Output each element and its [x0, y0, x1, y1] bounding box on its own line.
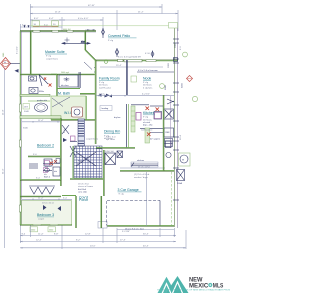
- vertical wall x56.5 (master bath/WIC): [56, 74, 59, 96]
- svg-text:Nook: Nook: [143, 77, 151, 81]
- svg-text:(2) 3'-0 x 6'-8 dr: (2) 3'-0 x 6'-8 dr: [134, 173, 150, 176]
- patio dim diamond 1: [102, 28, 105, 38]
- closet bottom wall y196: [20, 195, 61, 198]
- bath2 fixtures cluster: [43, 159, 60, 179]
- left dim labels mid: [23, 128, 29, 130]
- NM MLS logo white chevron left: [162, 284, 171, 294]
- svg-text:9'-1 1/2": 9'-1 1/2": [17, 46, 19, 54]
- svg-text:wall R-value: wall R-value: [99, 87, 112, 89]
- svg-text:8'-0 x 6'-8 sgd 5040 SH: 8'-0 x 6'-8 sgd 5040 SH: [118, 57, 141, 59]
- closet rod zigzag: [29, 186, 55, 194]
- left dimension line: [3, 31, 21, 248]
- dim line 11-4 bedroom2: [22, 120, 60, 123]
- svg-text:5040: 5040: [49, 230, 53, 232]
- svg-text:tile shwr: tile shwr: [61, 84, 69, 87]
- top dimension tier 1: [30, 5, 162, 8]
- wic tub fixture: [72, 107, 83, 117]
- ref box: [164, 96, 174, 148]
- svg-text:Dining Rm: Dining Rm: [104, 130, 120, 134]
- svg-text:stucco o/ frame: stucco o/ frame: [78, 185, 94, 188]
- svg-text:8'-8": 8'-8": [54, 233, 59, 235]
- porch step texts: [78, 184, 94, 194]
- master suite south wall y74: [20, 73, 95, 76]
- garage mid dim vertical: [146, 172, 148, 226]
- top extension verticals: [21, 4, 179, 31]
- blue chevron left: [15, 69, 19, 73]
- porch walls: [62, 196, 102, 229]
- nook window sill line y72: [137, 69, 174, 72]
- svg-text:4 clg fans: 4 clg fans: [143, 87, 153, 89]
- counter box right: [164, 109, 174, 119]
- bedroom3 tinted room: [22, 201, 72, 225]
- entry tile grid: [74, 146, 102, 178]
- master suite angled wall: [85, 50, 96, 61]
- vertical wall x96.5 center: [94, 60, 97, 144]
- svg-text:REF: REF: [166, 132, 171, 134]
- nook label: [143, 77, 153, 87]
- green circle marker right wall: [183, 52, 188, 57]
- svg-text:21'-8": 21'-8": [3, 109, 5, 115]
- svg-text:21'-8 x 22'-0: 21'-8 x 22'-0: [138, 166, 151, 168]
- svg-text:9' clg: 9' clg: [108, 40, 114, 42]
- hall wall x86 vertical: [85, 96, 87, 120]
- svg-text:5040: 5040: [3, 53, 5, 57]
- kitchen column extra marks: [131, 105, 173, 141]
- right rotated dim text: [180, 46, 184, 140]
- kitchen window callout: [131, 76, 137, 82]
- bottom window callout boxes: [30, 227, 56, 232]
- section marker leader wire: [10, 63, 21, 65]
- svg-text:31'-0": 31'-0": [3, 168, 5, 174]
- svg-text:Master Suite: Master Suite: [45, 50, 65, 54]
- bedroom3 door chevrons: [43, 205, 61, 211]
- svg-text:tile floors: tile floors: [143, 118, 153, 121]
- svg-text:Porch: Porch: [79, 198, 88, 202]
- svg-text:42'-10": 42'-10": [88, 5, 95, 7]
- pantry box: [131, 160, 158, 167]
- family room label: [99, 77, 120, 90]
- covered patio label: [108, 34, 137, 42]
- svg-text:21'-8": 21'-8": [55, 12, 61, 14]
- svg-text:wall sconce: wall sconce: [141, 130, 153, 132]
- svg-text:12'-4": 12'-4": [36, 239, 42, 241]
- svg-text:30x19: 30x19: [45, 166, 52, 168]
- svg-text:11'-4": 11'-4": [38, 233, 44, 235]
- wall x117.5 porch-garage vertical: [103, 150, 106, 196]
- kitchen counters lower: [140, 129, 163, 133]
- top dimension tier 2: [30, 12, 178, 15]
- master dim arrow 14'-0: [62, 41, 90, 44]
- dim arrows at x95: [85, 29, 96, 31]
- master bath shower box: [59, 75, 78, 87]
- svg-text:12'-8": 12'-8": [85, 233, 91, 235]
- range box: [154, 112, 162, 120]
- svg-text:5040: 5040: [23, 128, 29, 130]
- dishwasher purple rect: [136, 113, 141, 121]
- svg-text:21'-2": 21'-2": [138, 12, 144, 14]
- laundry wall y170.5: [120, 166, 174, 171]
- svg-text:carpet floors: carpet floors: [46, 57, 59, 60]
- garage door label text 2: [98, 222, 107, 229]
- svg-text:4'-0 x 5'-0 w/ transom: 4'-0 x 5'-0 w/ transom: [138, 69, 158, 72]
- svg-text:M.Ba: M.Ba: [39, 91, 45, 93]
- svg-text:8'-0": 8'-0": [34, 18, 39, 20]
- bottom dimension tier 2: [20, 233, 176, 236]
- electrical panel cluster: [177, 170, 185, 186]
- garage interior divider x160: [159, 201, 161, 226]
- left wall window callout: [23, 104, 30, 114]
- svg-text:40'-4": 40'-4": [143, 246, 149, 248]
- NM MLS logo wordmark: [189, 276, 224, 289]
- svg-text:landing: landing: [102, 108, 110, 110]
- hall chevron right: [98, 94, 102, 97]
- svg-text:Bath 2: Bath 2: [44, 176, 51, 179]
- right wall double line: [174, 26, 177, 228]
- master suite corner wall x85: [84, 31, 87, 50]
- svg-text:Covered Patio: Covered Patio: [108, 34, 130, 38]
- top exterior wall: [20, 30, 96, 32]
- section marker (red circle): [1, 58, 11, 70]
- bath2 bottom wall y179.5: [20, 178, 61, 181]
- rear wall extra window: [118, 59, 124, 61]
- svg-text:17'-4": 17'-4": [120, 239, 126, 241]
- svg-text:24'-0": 24'-0": [90, 246, 96, 248]
- interior wall master suite right (vertical x31): [29, 31, 32, 74]
- bottom extension verticals: [21, 225, 187, 249]
- svg-text:carpet: carpet: [38, 218, 44, 221]
- svg-text:9' clg: 9' clg: [143, 82, 149, 84]
- kitchen island green band: [131, 106, 135, 132]
- NM MLS logo mountain right: [166, 276, 189, 293]
- svg-text:THE SOUTHWEST NETWORK OF NEW M: THE SOUTHWEST NETWORK OF NEW MEXICO REAL…: [157, 289, 231, 292]
- svg-text:dry bar: dry bar: [114, 116, 121, 119]
- red mark toilet: [44, 78, 46, 80]
- master clg fan cross: [65, 38, 70, 43]
- master bath mid wall y94.5: [20, 94, 50, 96]
- svg-text:4'-2 1/2": 4'-2 1/2": [142, 94, 150, 96]
- master suite label: [45, 50, 67, 60]
- wall x163 vertical kitchen-garage: [162, 95, 165, 171]
- svg-text:16'-0 x 8'-0 o.h. door: 16'-0 x 8'-0 o.h. door: [125, 228, 144, 231]
- family room door swing: [84, 62, 96, 72]
- left exterior wall: [19, 31, 21, 225]
- family room corner post: [104, 60, 108, 64]
- wall x60.5 vertical (bed2 right): [60, 118, 63, 186]
- shower right wall x79.5: [79, 72, 80, 88]
- dining SW corner marks: [70, 136, 77, 142]
- bath wall y117 band: [20, 116, 95, 121]
- master bedroom door swing: [39, 75, 48, 87]
- bottom dimension tier 3: [20, 239, 176, 242]
- bedroom2 door chevrons: [63, 138, 70, 142]
- svg-text:6'-4": 6'-4": [49, 18, 54, 20]
- garage right green dashed: [171, 172, 173, 225]
- landing label box: [100, 106, 112, 111]
- master bath vanity fixtures: [29, 76, 45, 94]
- bottom dimension tier 4: [20, 246, 186, 249]
- stairs hatched band: [78, 119, 85, 146]
- svg-text:15'-4": 15'-4": [116, 65, 122, 67]
- vertical wall x127 family/nook divider: [127, 60, 129, 148]
- svg-text:9' clg: 9' clg: [99, 82, 105, 84]
- svg-text:M. Bath: M. Bath: [58, 92, 70, 96]
- svg-text:opt. desk: opt. desk: [106, 138, 116, 141]
- dining room label: [104, 130, 120, 140]
- svg-text:conc slab: conc slab: [78, 191, 88, 193]
- bottom-left exterior wall: [20, 224, 72, 226]
- svg-text:tile floors: tile floors: [99, 84, 109, 87]
- svg-text:2868: 2868: [175, 42, 177, 48]
- top-left tier arrows: [24, 25, 30, 28]
- hall wall y147.5: [96, 147, 135, 150]
- svg-text:3 Car Garage: 3 Car Garage: [118, 188, 139, 192]
- green circle marker upper right: [192, 96, 197, 101]
- svg-text:9' clg: 9' clg: [46, 56, 52, 58]
- right wall tick marks: [173, 39, 179, 200]
- svg-text:19'-4: 19'-4: [180, 134, 182, 140]
- top dimension tier 4: [20, 25, 62, 28]
- bath2 top wall y156.5: [28, 154, 60, 157]
- entry door swing: [70, 146, 76, 157]
- bath wall y88.5: [57, 88, 80, 90]
- svg-text:W: W: [182, 160, 184, 162]
- hall dim line y95.5: [96, 94, 174, 97]
- top dimension tier 3: [30, 18, 103, 21]
- svg-text:11'-4": 11'-4": [38, 197, 44, 199]
- svg-text:5050 SH: 5050 SH: [105, 151, 114, 153]
- svg-text:9' clg: 9' clg: [143, 117, 149, 119]
- svg-text:disp + d/w: disp + d/w: [143, 125, 153, 127]
- svg-text:washer / dryer: washer / dryer: [134, 176, 148, 179]
- svg-text:carpet floors: carpet floors: [86, 138, 99, 141]
- svg-text:s/s sink: s/s sink: [143, 122, 151, 124]
- green circle marker left of nook: [160, 84, 165, 89]
- svg-text:9'-2": 9'-2": [76, 239, 81, 241]
- red diamond marker right: [187, 76, 193, 82]
- window callout box 1: [32, 21, 40, 27]
- range red X: [156, 108, 160, 112]
- garage side fixtures left: [166, 141, 172, 158]
- svg-text:10'-0 x 11'-6: 10'-0 x 11'-6: [42, 203, 55, 205]
- hall chevron ticks 10-0: [105, 95, 113, 98]
- svg-text:10'-0": 10'-0": [99, 94, 105, 96]
- attic access box: [105, 151, 116, 165]
- hall door X mark: [62, 125, 69, 134]
- bath ledge line y101: [28, 100, 50, 102]
- svg-text:5040: 5040: [24, 111, 30, 113]
- bottom dimension tier 1: [117, 230, 174, 233]
- svg-text:5'-2 3/4": 5'-2 3/4": [122, 231, 130, 233]
- linen shelves bed2: [29, 164, 38, 168]
- svg-text:5040 sgd: 5040 sgd: [61, 72, 69, 74]
- covered porch label: [79, 196, 88, 203]
- patio posts: [174, 58, 178, 62]
- svg-text:4'-0 x 4'-0": 4'-0 x 4'-0": [78, 18, 88, 20]
- NM MLS logo mountain left: [158, 277, 176, 293]
- NM MLS logo base diamonds: [165, 288, 168, 293]
- svg-text:Bedroom 3: Bedroom 3: [37, 213, 54, 217]
- dim line y199 bottom-left: [22, 197, 72, 200]
- bath wall y93.5 right: [80, 93, 95, 96]
- svg-text:Bedroom 2: Bedroom 2: [37, 144, 54, 148]
- svg-text:Kitchen: Kitchen: [143, 111, 155, 115]
- rear wall family room (y60.5): [95, 60, 178, 62]
- bedroom3 label: [37, 213, 54, 221]
- svg-text:MLS: MLS: [213, 283, 224, 290]
- cased opening x-box: [117, 151, 123, 158]
- svg-text:tile floors: tile floors: [143, 84, 153, 87]
- svg-text:MEXIC: MEXIC: [189, 283, 208, 290]
- patio interior dim line y67: [100, 65, 163, 67]
- svg-text:30'-4": 30'-4": [143, 233, 149, 235]
- tier green line y25.5: [30, 23, 178, 29]
- window callout box 2: [52, 21, 59, 27]
- svg-text:shelves: shelves: [137, 160, 144, 162]
- svg-text:9' clg: 9' clg: [119, 194, 125, 196]
- fridge red X: [147, 133, 151, 137]
- entry south wall y178.7: [70, 178, 103, 181]
- svg-text:11'-4": 11'-4": [38, 120, 44, 122]
- NM MLS logo white chevron right: [172, 282, 182, 294]
- garage label: [118, 188, 142, 196]
- svg-text:5040: 5040: [31, 230, 35, 232]
- kitchen sink red X: [146, 107, 150, 111]
- pantry shelves: [131, 164, 158, 166]
- kitchen lower green band: [145, 128, 150, 143]
- svg-text:4'-10: 4'-10: [145, 53, 151, 55]
- double door marks nook: [167, 99, 174, 104]
- bedroom2 label: [37, 144, 54, 148]
- svg-text:Family Room: Family Room: [99, 77, 120, 81]
- water heater platform: [179, 153, 191, 166]
- wic green tinted area: [51, 96, 86, 120]
- patio dim diamond 2: [115, 48, 119, 57]
- right column rotated texts: [165, 62, 170, 90]
- svg-text:2868: 2868: [168, 62, 170, 68]
- master tub oval: [35, 99, 48, 112]
- svg-text:garden tub: garden tub: [37, 99, 48, 102]
- red door mark master: [49, 84, 52, 87]
- kitchen label: [143, 111, 155, 121]
- garage door dashed line: [107, 200, 161, 225]
- svg-text:42" uppers: 42" uppers: [150, 138, 160, 141]
- garage bottom wall: [100, 225, 174, 228]
- svg-text:200A: 200A: [177, 182, 182, 185]
